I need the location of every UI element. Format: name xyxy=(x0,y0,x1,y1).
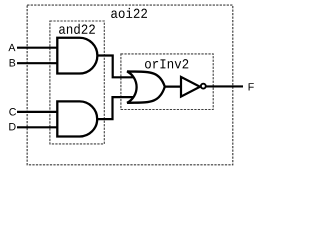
text D (ink w6.3 h7.3) xyxy=(9,123,15,130)
wire input A xyxy=(17,47,58,49)
AND gate 1 (inputs A,B) xyxy=(57,38,97,74)
text F (ink w5.2 h7.3) xyxy=(249,83,254,90)
AND gate 2 (inputs C,D) xyxy=(57,101,97,136)
text B (ink w5.6 h7.3) xyxy=(10,59,16,66)
wire or output to inverter xyxy=(164,85,182,87)
wire and1 output to or top input xyxy=(96,56,134,78)
OR gate xyxy=(127,71,165,102)
wire input C xyxy=(17,111,58,113)
text orInv2 (ink w43.3 h9.4) xyxy=(145,59,188,68)
wire input D xyxy=(17,126,58,128)
text aoi22 (ink w35.8 h10.1) xyxy=(111,8,147,18)
text A (ink w7.0 h7.3) xyxy=(8,44,15,51)
module box orInv2 xyxy=(121,54,213,110)
wire inverter output to F xyxy=(206,85,243,87)
module box aoi22 xyxy=(27,5,233,165)
inverter bubble xyxy=(201,84,206,89)
wire input B xyxy=(17,62,58,64)
module box and22 xyxy=(50,21,104,144)
inverter triangle xyxy=(181,77,200,97)
wire and2 output to or bottom input xyxy=(96,97,134,119)
text and22 (ink w35.8 h10.2) xyxy=(59,24,95,34)
text C (ink w6.7 h7.5) xyxy=(9,108,16,116)
